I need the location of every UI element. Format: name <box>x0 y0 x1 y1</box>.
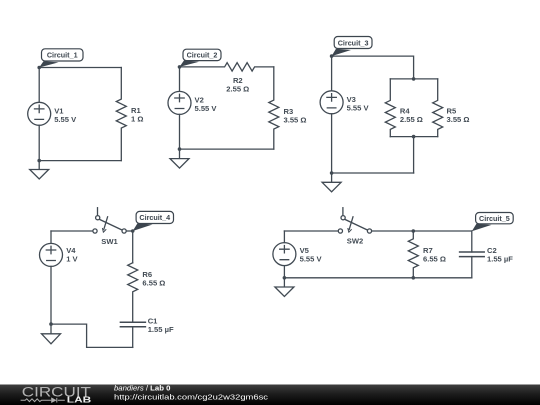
wire V3 lower lead <box>331 114 333 173</box>
node junction circuit 1 bottom <box>37 159 41 163</box>
svg-text:1.55 µF: 1.55 µF <box>148 325 174 334</box>
svg-text:Circuit_2: Circuit_2 <box>187 51 218 60</box>
node junction circuit 3 top-left <box>330 54 334 58</box>
switch SW2 <box>338 208 371 233</box>
capacitor C1 <box>120 322 145 347</box>
net flag Circuit_3 <box>332 37 372 57</box>
ground circuit 4 <box>42 324 61 344</box>
svg-text:5.55 V: 5.55 V <box>195 104 218 113</box>
wire top rail circuit 3 <box>332 56 414 79</box>
node junction circuit 4 corner <box>131 229 135 233</box>
resistor R7 <box>408 231 418 278</box>
wire top rail left circuit 5 <box>284 230 338 232</box>
resistor R6 <box>128 263 138 323</box>
switch SW1 <box>93 208 126 233</box>
wire V4 lower lead <box>50 266 52 324</box>
svg-text:5.55 V: 5.55 V <box>300 255 323 264</box>
wire V1 lower lead <box>38 125 40 160</box>
wire V2 lower lead <box>179 114 181 149</box>
svg-text:5.55 V: 5.55 V <box>347 103 370 112</box>
resistor R4 <box>385 79 395 137</box>
wire parallel bottom bar circuit 3 <box>390 136 437 138</box>
svg-text:Circuit_1: Circuit_1 <box>47 51 78 60</box>
wire V3 upper lead <box>331 56 333 91</box>
wire junction stub down circuit 3 <box>413 137 415 173</box>
wire bottom rail circuit 1 <box>39 160 121 162</box>
svg-text:http://circuitlab.com/cg2u2w32: http://circuitlab.com/cg2u2w32gm6sc <box>114 393 268 402</box>
voltage source V4 <box>40 243 63 266</box>
voltage source V1 <box>28 102 51 125</box>
wire top rail circuit 1 <box>39 67 121 69</box>
wire SW1 to corner <box>126 230 132 232</box>
node junction circuit 1 top <box>37 66 41 70</box>
svg-text:6.55 Ω: 6.55 Ω <box>423 254 446 263</box>
net flag Circuit_5 <box>472 213 513 232</box>
svg-text:LAB: LAB <box>67 396 92 405</box>
net flag Circuit_2 <box>180 49 222 67</box>
footer logo resistor-diode squiggle <box>21 397 65 403</box>
ground circuit 2 <box>170 149 189 168</box>
wire right branch circuit 4 <box>132 231 134 263</box>
node junction circuit 3 parallel top <box>412 77 416 81</box>
wire V1 upper lead <box>38 68 40 103</box>
wire bottom rail circuit 2 <box>180 148 274 150</box>
svg-text:Circuit_4: Circuit_4 <box>139 213 170 222</box>
voltage source V3 <box>320 91 343 114</box>
node junction circuit 2 top <box>178 65 182 69</box>
wire bottom rail circuit 3 <box>332 172 414 174</box>
svg-text:Circuit_3: Circuit_3 <box>338 38 369 47</box>
ground circuit 3 <box>322 173 341 192</box>
node junction circuit 5 V5 bottom <box>283 276 287 280</box>
footer bar <box>0 385 540 405</box>
net flag Circuit_4 <box>133 211 174 231</box>
wire bottom route circuit 4 <box>51 324 133 347</box>
wire bottom rail circuit 5 <box>284 277 471 279</box>
svg-text:SW1: SW1 <box>101 237 118 246</box>
voltage source V5 <box>273 243 296 266</box>
node junction circuit 2 bottom <box>178 147 182 151</box>
node junction circuit 5 R7 top <box>412 229 416 233</box>
wire V4 upper lead <box>50 231 52 243</box>
svg-text:3.55 Ω: 3.55 Ω <box>447 115 470 124</box>
node junction circuit 3 parallel bottom <box>412 135 416 139</box>
resistor R5 <box>433 79 443 137</box>
capacitor C2 <box>460 231 485 278</box>
svg-text:5.55 V: 5.55 V <box>54 115 77 124</box>
node junction circuit 5 R7 bottom <box>412 276 416 280</box>
node junction circuit 3 bottom-left <box>330 171 334 175</box>
svg-text:1 Ω: 1 Ω <box>131 114 143 123</box>
svg-text:2.55 Ω: 2.55 Ω <box>400 115 423 124</box>
net flag Circuit_1 <box>39 49 83 68</box>
svg-text:2.55 Ω: 2.55 Ω <box>226 85 249 94</box>
resistor R1 <box>116 68 126 161</box>
voltage source V2 <box>168 91 191 114</box>
svg-text:Circuit_5: Circuit_5 <box>479 214 510 223</box>
wire top rail left circuit 4 <box>51 230 93 232</box>
resistor R2 (horizontal) with wire leads circuit 2 <box>180 63 274 71</box>
svg-text:3.55 Ω: 3.55 Ω <box>284 115 307 124</box>
resistor R3 <box>269 67 279 149</box>
svg-text:bandiers / Lab 0: bandiers / Lab 0 <box>114 383 170 392</box>
wire V5 upper lead <box>283 231 285 243</box>
svg-text:SW2: SW2 <box>347 237 363 246</box>
wire SW2 to C2 corner <box>372 230 472 232</box>
node junction circuit 4 bottom <box>49 322 53 326</box>
svg-text:1 V: 1 V <box>66 255 78 264</box>
svg-text:6.55 Ω: 6.55 Ω <box>142 278 165 287</box>
svg-text:1.55 µF: 1.55 µF <box>487 255 513 264</box>
wire V2 upper lead <box>179 67 181 92</box>
wire parallel top bar circuit 3 <box>390 78 437 80</box>
wire V5 lower lead <box>283 266 285 278</box>
ground circuit 5 <box>275 278 294 297</box>
ground circuit 1 <box>30 161 49 179</box>
